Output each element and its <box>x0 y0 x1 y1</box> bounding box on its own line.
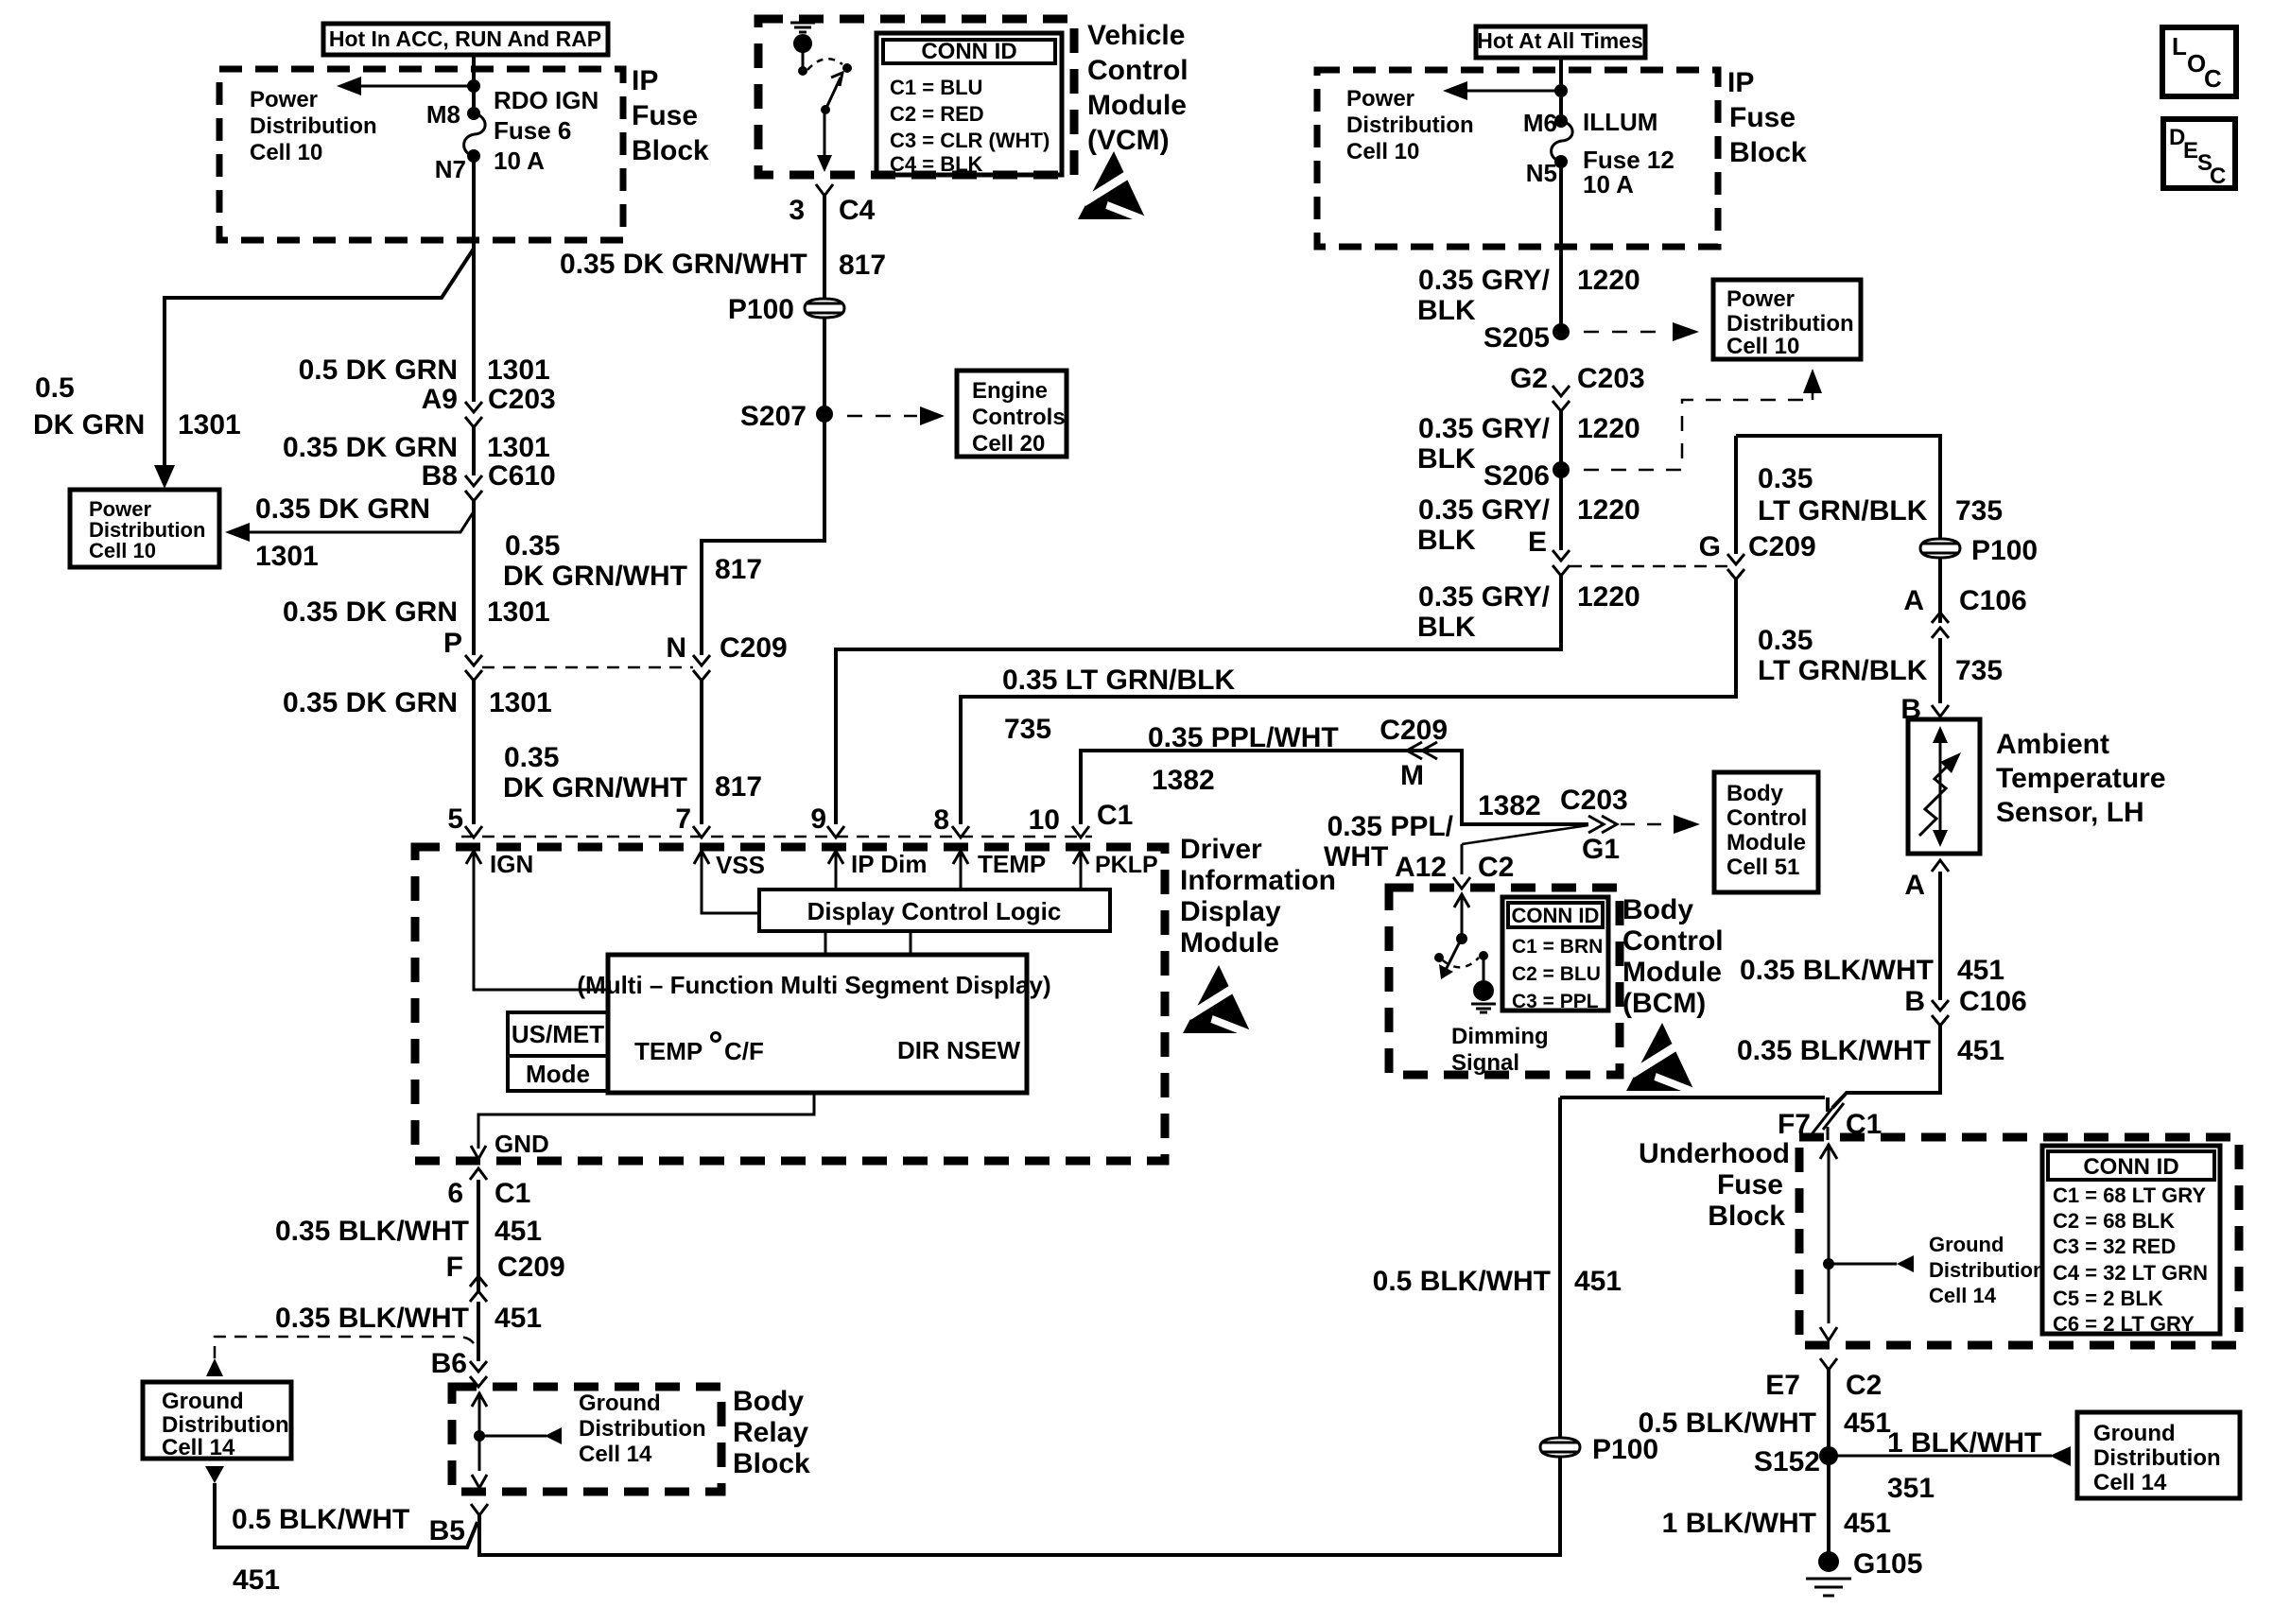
wire N5 down to S205 <box>1559 162 1563 332</box>
svg-text:C1 = 68 LT GRY: C1 = 68 LT GRY <box>2053 1183 2206 1207</box>
connector P (C209 plane) <box>443 628 482 681</box>
multi function display box <box>577 955 1050 1093</box>
svg-text:Ground: Ground <box>162 1389 244 1414</box>
wire G down to corner, left to pin 8 riser <box>961 579 1736 824</box>
label 0.35 / DK GRN/WHT / 817 (above N) <box>503 530 762 592</box>
svg-text:Module: Module <box>1726 830 1806 855</box>
fuse labels M6 N5 ILLUM Fuse 12 10A <box>1523 108 1674 199</box>
svg-text:0.5 BLK/WHT: 0.5 BLK/WHT <box>1639 1408 1816 1439</box>
svg-text:0.35: 0.35 <box>504 742 559 773</box>
CONN ID table (VCM) <box>876 33 1062 176</box>
svg-text:Distribution: Distribution <box>1726 311 1854 337</box>
label 0.35 / LT GRN/BLK / 735 (upper) <box>1758 463 2003 527</box>
svg-text:C4 = 32 LT GRN: C4 = 32 LT GRN <box>2053 1261 2208 1285</box>
connector F7 C1 (X) <box>1778 1097 1882 1140</box>
fuse 6 symbol M8/N7 <box>464 107 486 163</box>
svg-text:C2 = RED: C2 = RED <box>890 102 984 126</box>
svg-text:IP: IP <box>1727 67 1754 98</box>
svg-text:GND: GND <box>495 1130 549 1158</box>
svg-text:C4 = BLK: C4 = BLK <box>890 152 983 176</box>
US/MET box <box>508 1012 608 1056</box>
svg-text:CONN ID: CONN ID <box>2083 1154 2178 1180</box>
svg-text:B5: B5 <box>429 1515 465 1546</box>
GND fork below module <box>470 1168 487 1180</box>
connector F C209 <box>446 1252 565 1302</box>
svg-text:Control: Control <box>1622 925 1724 957</box>
svg-text:CONN ID: CONN ID <box>921 39 1016 64</box>
label 1 BLK/WHT 451 <box>1662 1508 1891 1539</box>
svg-text:0.35 GRY/: 0.35 GRY/ <box>1418 265 1551 296</box>
svg-text:Block: Block <box>632 135 709 166</box>
C209 dashed plane E to G <box>1570 565 1727 568</box>
svg-text:Cell 10: Cell 10 <box>250 140 322 165</box>
svg-text:Block: Block <box>1729 137 1807 168</box>
svg-text:DK GRN/WHT: DK GRN/WHT <box>503 772 687 803</box>
ambient temperature sensor label <box>1996 729 2166 828</box>
label 0.35 DK GRN / 1301 at B8 <box>283 432 550 463</box>
svg-text:LT GRN/BLK: LT GRN/BLK <box>1758 495 1928 527</box>
svg-text:C106: C106 <box>1959 585 2027 616</box>
svg-text:B8: B8 <box>422 460 458 492</box>
svg-text:817: 817 <box>715 554 762 585</box>
svg-text:E7: E7 <box>1765 1370 1800 1401</box>
wire P to pin5 <box>472 681 476 824</box>
svg-text:0.35 GRY/: 0.35 GRY/ <box>1418 494 1551 526</box>
header box "Hot In ACC, RUN And RAP" <box>323 24 608 55</box>
svg-text:817: 817 <box>715 771 762 803</box>
svg-text:IP Dim: IP Dim <box>851 850 927 878</box>
header box "Hot At All Times" <box>1476 26 1645 58</box>
svg-text:G1: G1 <box>1582 834 1620 865</box>
svg-text:Hot In ACC, RUN And RAP: Hot In ACC, RUN And RAP <box>329 26 601 51</box>
svg-text:Engine: Engine <box>972 378 1048 404</box>
svg-text:451: 451 <box>1574 1266 1622 1297</box>
label 0.35 PPL/WHT (vertical segment) <box>1324 790 1541 872</box>
svg-text:Driver: Driver <box>1180 834 1262 865</box>
connector B C106 (lower) <box>1904 986 2026 1026</box>
svg-text:451: 451 <box>1957 955 2004 986</box>
svg-text:BLK: BLK <box>1417 525 1476 556</box>
svg-text:C: C <box>2210 164 2226 189</box>
svg-text:Module: Module <box>1087 90 1187 121</box>
ambient temperature sensor box <box>1908 719 1980 854</box>
wire inside underhood block <box>1820 1144 1914 1340</box>
label 0.5 DK GRN / 1301 at A9 <box>299 354 550 386</box>
svg-text:C1 = BLU: C1 = BLU <box>890 76 982 99</box>
svg-text:S207: S207 <box>740 401 807 432</box>
svg-text:Display: Display <box>1180 896 1281 927</box>
fuse 12 symbol M6/N5 <box>1552 114 1573 168</box>
dashed arrow C203 to BCM cell 51 box <box>1621 815 1700 834</box>
dimming signal label <box>1451 1024 1549 1076</box>
svg-text:1301: 1301 <box>255 541 319 572</box>
svg-text:Ambient: Ambient <box>1996 729 2109 760</box>
dimming switch symbol <box>1434 894 1496 1012</box>
svg-text:N7: N7 <box>435 155 466 183</box>
svg-text:C: C <box>2204 64 2222 93</box>
connector 3 C4 below VCM <box>789 184 875 226</box>
svg-text:6: 6 <box>447 1178 463 1209</box>
svg-text:G105: G105 <box>1853 1548 1922 1580</box>
VCM switch symbol <box>790 23 852 172</box>
underhood fuse block dashed box <box>1799 1137 2239 1345</box>
dashed branch to ground distribution <box>215 1337 476 1358</box>
svg-text:Dimming: Dimming <box>1451 1024 1549 1049</box>
label 0.35 BLK/WHT 451 <box>275 1216 542 1247</box>
svg-text:C3 = PPL: C3 = PPL <box>1512 991 1599 1012</box>
svg-text:Body: Body <box>1726 781 1784 806</box>
svg-text:0.35 DK GRN: 0.35 DK GRN <box>283 687 458 718</box>
svg-text:1301: 1301 <box>487 432 550 463</box>
svg-text:Distribution: Distribution <box>162 1412 289 1438</box>
wire N7 down and out of fuse block <box>472 156 476 402</box>
svg-text:1 BLK/WHT: 1 BLK/WHT <box>1662 1508 1816 1539</box>
svg-text:Cell 10: Cell 10 <box>89 539 156 562</box>
svg-text:Fuse: Fuse <box>1729 102 1796 133</box>
connector N C209 <box>666 632 787 681</box>
ESD symbol VCM <box>1078 151 1148 221</box>
svg-text:0.35 BLK/WHT: 0.35 BLK/WHT <box>275 1303 469 1334</box>
wire left horizontal to F7 <box>1560 1096 1825 1099</box>
svg-text:Body: Body <box>733 1386 804 1417</box>
svg-text:C209: C209 <box>1379 715 1448 746</box>
wire from Hot box into fuse block <box>472 55 476 113</box>
svg-text:Distribution: Distribution <box>579 1416 706 1442</box>
label 0.35 GRY/BLK 1220 (2) <box>1417 413 1640 475</box>
svg-text:C203: C203 <box>1577 363 1645 394</box>
svg-text:351: 351 <box>1887 1473 1935 1504</box>
svg-text:CONN ID: CONN ID <box>1512 904 1600 927</box>
wire N to pin7 <box>700 681 703 824</box>
CONN ID table (underhood) <box>2042 1146 2220 1336</box>
svg-text:A: A <box>1904 870 1925 901</box>
wire S206 to E <box>1559 470 1563 550</box>
svg-text:Ground: Ground <box>2093 1421 2176 1446</box>
svg-text:S205: S205 <box>1484 322 1550 354</box>
svg-text:5: 5 <box>447 803 463 835</box>
ground distribution cell 14 text (underhood) <box>1929 1233 2045 1307</box>
label 0.35 GRY/BLK 1220 (3) with E <box>1417 494 1640 558</box>
DIDM dashed border <box>415 847 1165 1161</box>
svg-text:1301: 1301 <box>178 409 241 441</box>
arrow to power distribution (right fuse block) <box>1443 81 1568 100</box>
IP fuse block (left) label <box>632 65 709 166</box>
arrow to power distribution (left fuse block) <box>337 77 480 95</box>
dimming signal dashed box <box>1389 888 1620 1075</box>
fuse labels M8 N7 RDO IGN Fuse 6 10A <box>426 86 599 183</box>
label 0.5 BLK/WHT 451 <box>1639 1408 1891 1439</box>
svg-text:Control: Control <box>1726 805 1807 831</box>
body relay block dashed box <box>452 1387 721 1492</box>
svg-text:Power: Power <box>1726 286 1795 312</box>
svg-text:P100: P100 <box>1971 535 2038 566</box>
svg-text:0.35 DK GRN: 0.35 DK GRN <box>283 596 458 628</box>
svg-text:C/F: C/F <box>724 1037 764 1065</box>
svg-text:PKLP: PKLP <box>1095 852 1158 878</box>
svg-text:Ground: Ground <box>1929 1233 2004 1256</box>
connector B8 C610 <box>422 460 556 501</box>
svg-text:A12: A12 <box>1395 852 1447 883</box>
svg-text:C6 = 2 LT GRY: C6 = 2 LT GRY <box>2053 1312 2195 1336</box>
body control module cell 51 box <box>1714 772 1818 892</box>
VCM label <box>1087 20 1189 156</box>
label 0.35 LT GRN/BLK 735 (pin8 wire) <box>1002 665 1235 745</box>
svg-text:451: 451 <box>495 1303 542 1334</box>
svg-text:Fuse: Fuse <box>1717 1169 1783 1201</box>
svg-text:Display Control Logic: Display Control Logic <box>807 897 1062 925</box>
svg-text:Cell 14: Cell 14 <box>162 1435 235 1460</box>
label 0.35 BLK/WHT 451 (2) <box>275 1303 542 1334</box>
svg-text:C4: C4 <box>839 195 876 226</box>
svg-text:Distribution: Distribution <box>1346 112 1474 138</box>
svg-text:451: 451 <box>233 1564 280 1596</box>
svg-text:Block: Block <box>733 1448 810 1479</box>
power distribution cell10 text (right fuse block) <box>1346 86 1474 164</box>
svg-text:Cell 10: Cell 10 <box>1346 139 1419 164</box>
display control logic box <box>759 890 1110 931</box>
wire B/C106 down, corner to F7 <box>1832 1026 1940 1108</box>
ESD symbol DIDM <box>1183 965 1253 1035</box>
splice S205 <box>1484 322 1570 354</box>
svg-text:0.35 PPL/WHT: 0.35 PPL/WHT <box>1148 722 1339 753</box>
svg-text:735: 735 <box>1004 714 1051 745</box>
BCM label <box>1622 894 1724 1019</box>
svg-text:C203: C203 <box>488 384 556 415</box>
svg-text:DK GRN: DK GRN <box>33 409 145 441</box>
svg-text:0.35 BLK/WHT: 0.35 BLK/WHT <box>1740 955 1934 986</box>
pin labels 5 7 9 8 10 C1 <box>447 800 1133 836</box>
label 0.35 PPL/WHT 1382 <box>1148 722 1339 796</box>
svg-text:0.35 BLK/WHT: 0.35 BLK/WHT <box>1737 1035 1931 1066</box>
connector B6 <box>431 1348 487 1387</box>
svg-text:10: 10 <box>1029 804 1060 836</box>
svg-text:C1: C1 <box>495 1178 530 1209</box>
label 0.35 / LT GRN/BLK / 735 (lower) <box>1758 625 2003 686</box>
svg-text:C3 = 32 RED: C3 = 32 RED <box>2053 1235 2176 1258</box>
label 0.35 BLK/WHT 451 (lower) <box>1737 1035 2004 1066</box>
svg-text:Controls: Controls <box>972 405 1066 430</box>
ground distribution cell 14 box (right) <box>2077 1412 2240 1498</box>
svg-text:Distribution: Distribution <box>1929 1258 2045 1282</box>
GND wire from display <box>478 1093 814 1149</box>
svg-text:E: E <box>1528 527 1547 558</box>
wire B8 down <box>472 501 476 655</box>
module pin forks 5,7,9,8,10 <box>465 826 1089 838</box>
svg-text:0.35 LT GRN/BLK: 0.35 LT GRN/BLK <box>1002 665 1235 696</box>
svg-text:0.5 DK GRN: 0.5 DK GRN <box>299 354 458 386</box>
svg-text:Module: Module <box>1622 957 1722 988</box>
connector B5 <box>429 1504 488 1546</box>
svg-text:1301: 1301 <box>489 687 552 718</box>
svg-text:0.35 GRY/: 0.35 GRY/ <box>1418 581 1551 613</box>
connector G C209 <box>1699 531 1816 579</box>
pin function labels <box>490 850 1158 879</box>
svg-text:451: 451 <box>1957 1035 2004 1066</box>
svg-text:G: G <box>1699 531 1721 562</box>
wire E down to corner and left to pin 9 riser <box>836 576 1561 824</box>
ground distribution cell 14 text (in body relay block) <box>579 1391 706 1467</box>
svg-text:Information: Information <box>1180 865 1336 896</box>
module connector plane C1 (dashed) <box>461 836 1092 838</box>
svg-text:0.5 BLK/WHT: 0.5 BLK/WHT <box>1373 1266 1551 1297</box>
svg-text:Relay: Relay <box>733 1417 808 1448</box>
wire pin10 to C209 M <box>1081 751 1588 824</box>
body relay block label <box>733 1386 810 1479</box>
Mode box <box>508 1056 608 1091</box>
underhood fuse block label <box>1639 1138 1790 1232</box>
svg-text:A: A <box>1903 585 1924 616</box>
label 0.35 BLK/WHT 451 (upper) <box>1740 955 2004 986</box>
svg-text:Power: Power <box>1346 86 1414 112</box>
svg-text:TEMP: TEMP <box>634 1037 703 1065</box>
svg-text:451: 451 <box>1844 1508 1891 1539</box>
svg-text:C5 = 2 BLK: C5 = 2 BLK <box>2053 1287 2163 1310</box>
wire A9 to B8 <box>472 427 476 475</box>
VCM dashed box <box>758 19 1074 175</box>
svg-text:Sensor, LH: Sensor, LH <box>1996 797 2144 828</box>
svg-text:C209: C209 <box>497 1252 565 1283</box>
svg-text:S206: S206 <box>1484 460 1550 492</box>
IP fuse block (right) dashed box <box>1317 70 1718 247</box>
svg-text:DK GRN/WHT: DK GRN/WHT <box>503 561 687 592</box>
LOC box <box>2162 27 2236 96</box>
svg-text:RDO IGN: RDO IGN <box>494 86 599 114</box>
svg-text:0.35 PPL/: 0.35 PPL/ <box>1327 811 1454 842</box>
connector A12 C2 <box>1395 852 1514 889</box>
wire 3/C4 down through P100 to S207 <box>823 196 826 541</box>
svg-text:Cell 14: Cell 14 <box>1929 1284 1997 1307</box>
dashed arrow S207 to engine controls <box>847 406 945 425</box>
label 0.5 BLK/WHT 451 (bottom left) <box>232 1504 409 1596</box>
connector C203 (double chevron right) with G1 <box>1560 785 1628 865</box>
svg-text:Underhood: Underhood <box>1639 1138 1790 1169</box>
arrow below ground distribution box <box>205 1466 224 1483</box>
connector A C106 (upper) <box>1903 585 2026 638</box>
svg-text:WHT: WHT <box>1324 841 1388 872</box>
svg-text:N: N <box>666 632 686 664</box>
svg-text:M: M <box>1400 760 1424 791</box>
svg-text:Fuse 6: Fuse 6 <box>494 116 571 145</box>
svg-text:Cell 20: Cell 20 <box>972 431 1045 457</box>
connector M C209 (double chevron left) <box>1379 715 1448 791</box>
svg-text:P: P <box>443 628 462 659</box>
svg-text:1220: 1220 <box>1577 265 1640 296</box>
DIDM label <box>1180 834 1336 959</box>
connector E (C209 plane) <box>1553 550 1570 576</box>
wire 6/C1 to F/C209 <box>477 1180 480 1291</box>
svg-text:451: 451 <box>1844 1408 1891 1439</box>
svg-text:0.35: 0.35 <box>1758 463 1813 494</box>
svg-text:(Multi – Function Multi Segmen: (Multi – Function Multi Segment Display) <box>577 971 1050 999</box>
svg-text:Cell 14: Cell 14 <box>2093 1470 2167 1495</box>
pin B fork into sensor <box>1900 694 1949 725</box>
wire loop top: sensor feed <box>1736 436 1940 623</box>
wire G2 to S206 <box>1559 411 1563 470</box>
svg-text:451: 451 <box>495 1216 542 1247</box>
svg-text:BLK: BLK <box>1417 295 1476 326</box>
svg-text:IGN: IGN <box>490 850 533 878</box>
svg-text:Control: Control <box>1087 55 1189 86</box>
wire B5 down and right to underhood riser <box>479 1097 1560 1555</box>
svg-text:1220: 1220 <box>1577 413 1640 444</box>
svg-text:0.5: 0.5 <box>35 372 75 404</box>
svg-text:1301: 1301 <box>487 596 550 628</box>
svg-text:Signal: Signal <box>1451 1050 1519 1076</box>
svg-text:C106: C106 <box>1959 986 2027 1017</box>
svg-text:DIR NSEW: DIR NSEW <box>897 1036 1020 1064</box>
label 0.35 GRY/BLK 1220 (4) <box>1417 581 1640 643</box>
connector A9 C203 <box>422 384 556 427</box>
svg-text:0.35 GRY/: 0.35 GRY/ <box>1418 413 1551 444</box>
connector 6 C1 <box>447 1178 530 1209</box>
connector E7 C2 <box>1765 1358 1882 1401</box>
svg-text:0.35 DK GRN: 0.35 DK GRN <box>283 432 458 463</box>
svg-text:VSS: VSS <box>716 851 765 879</box>
splice S206 <box>1484 460 1570 492</box>
svg-text:Block: Block <box>1708 1201 1785 1232</box>
svg-text:0.35 DK GRN: 0.35 DK GRN <box>255 493 430 525</box>
label 1 BLK/WHT 351 <box>1887 1427 2041 1504</box>
arrow into ground distribution box (up) <box>206 1358 223 1376</box>
svg-text:10 A: 10 A <box>494 147 545 175</box>
svg-text:1220: 1220 <box>1577 494 1640 526</box>
svg-text:Cell 10: Cell 10 <box>1726 334 1799 359</box>
power distribution cell 10 box (right) <box>1713 280 1861 359</box>
svg-text:C209: C209 <box>720 632 788 664</box>
svg-text:Hot At All Times: Hot At All Times <box>1477 28 1643 53</box>
wire 817 S207 down, left, down to N <box>702 414 824 655</box>
dashed route S206 to power distribution box <box>1584 369 1822 470</box>
svg-text:817: 817 <box>839 250 886 281</box>
svg-text:C209: C209 <box>1748 531 1816 562</box>
svg-text:L: L <box>2172 32 2187 60</box>
svg-text:Distribution: Distribution <box>2093 1445 2221 1471</box>
label 0.35 GRY/BLK 1220 (1) <box>1417 265 1640 326</box>
splice S152 <box>1754 1446 1838 1477</box>
svg-text:M8: M8 <box>426 100 460 129</box>
svg-text:0.35: 0.35 <box>1758 625 1813 656</box>
svg-text:735: 735 <box>1955 495 2003 527</box>
engine controls cell 20 box <box>957 371 1067 457</box>
branch diagonal to left power distribution wire <box>165 249 474 477</box>
svg-text:E: E <box>2183 138 2198 164</box>
svg-text:TEMP: TEMP <box>978 850 1046 878</box>
svg-text:IP: IP <box>632 65 658 96</box>
label 0.5 BLK/WHT 451 (riser) <box>1373 1266 1622 1297</box>
svg-text:C2 = BLU: C2 = BLU <box>1512 963 1601 985</box>
wire S152 to G105 <box>1827 1456 1831 1552</box>
svg-text:1 BLK/WHT: 1 BLK/WHT <box>1887 1427 2041 1459</box>
svg-text:9: 9 <box>810 803 826 835</box>
DESC box <box>2163 119 2235 189</box>
svg-text:10 A: 10 A <box>1583 170 1634 199</box>
label 0.35 / DK GRN/WHT / 817 (pin 7) <box>503 742 762 803</box>
svg-text:C203: C203 <box>1560 785 1628 816</box>
svg-text:3: 3 <box>789 195 805 226</box>
IP fuse block (right) label <box>1727 67 1807 168</box>
arrow into power distribution box (left) <box>154 465 175 489</box>
svg-text:Vehicle: Vehicle <box>1087 20 1185 51</box>
label 0.5 DK GRN 1301 (far left) <box>33 372 241 441</box>
svg-text:BLK: BLK <box>1417 612 1476 643</box>
svg-text:1220: 1220 <box>1577 581 1640 613</box>
IP fuse block (left) dashed box <box>219 69 623 240</box>
wire inside body relay block <box>472 1392 562 1488</box>
svg-text:P100: P100 <box>728 294 794 325</box>
svg-text:Power: Power <box>250 87 318 112</box>
svg-text:Mode: Mode <box>526 1060 590 1088</box>
svg-text:C1 = BRN: C1 = BRN <box>1512 936 1603 958</box>
